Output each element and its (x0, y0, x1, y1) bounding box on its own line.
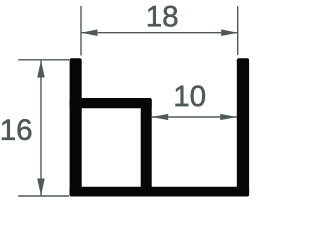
profile middle horizontal bar (70, 98, 152, 108)
dim10 arrow right (220, 114, 237, 120)
profile middle vertical bar (141, 98, 152, 197)
dim18 extension line right (237, 6, 239, 55)
dim18 arrow right (221, 29, 238, 36)
dim10 dimension line (152, 116, 237, 118)
dim18 dimension line (81, 32, 238, 34)
profile left vertical bar (70, 58, 82, 196)
profile bottom horizontal bar (70, 187, 250, 197)
dim16 arrow down (37, 179, 45, 196)
dim10 label "10" (175, 86, 204, 107)
dim10 arrow left (152, 114, 169, 120)
dim18 label "18" (148, 6, 177, 27)
dim16 extension line bottom (18, 195, 69, 197)
dim18 arrow left (81, 29, 98, 36)
dim18 extension line left (80, 6, 82, 56)
dim16 extension line top (18, 59, 69, 61)
dim16 arrow up (37, 61, 45, 78)
dim16 label "16" (2, 119, 31, 140)
dim16 dimension line (40, 60, 42, 196)
profile right vertical bar (237, 58, 249, 196)
